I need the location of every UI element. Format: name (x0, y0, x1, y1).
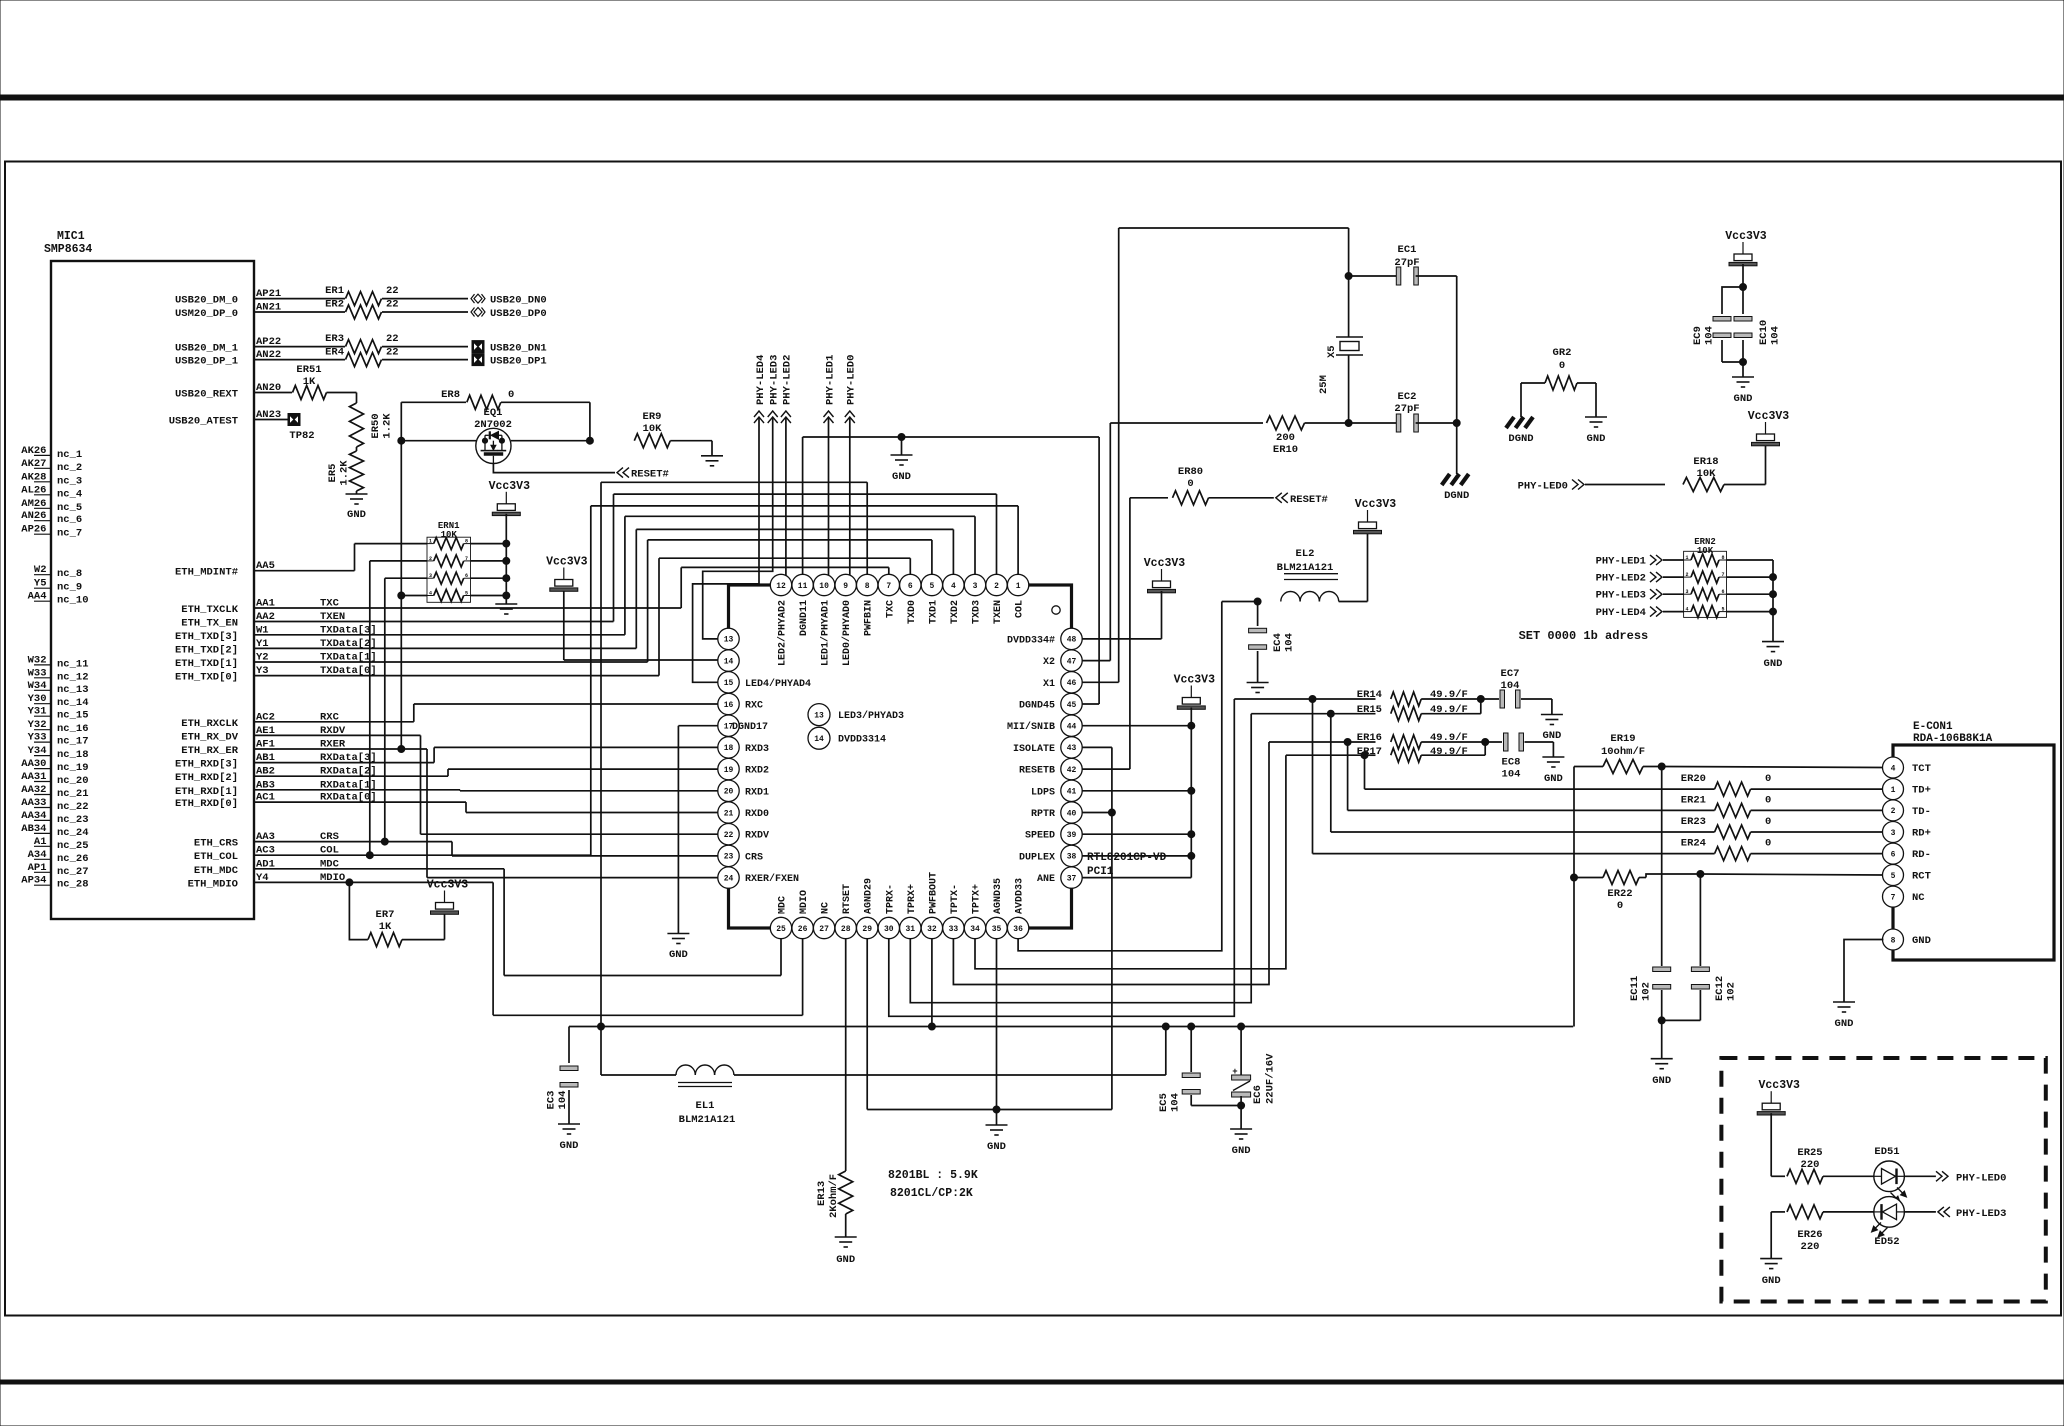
svg-text:ETH_MDINT#: ETH_MDINT# (175, 567, 238, 579)
svg-text:LED3/PHYAD3: LED3/PHYAD3 (838, 710, 904, 722)
svg-text:ED52: ED52 (1874, 1236, 1899, 1248)
svg-text:LED4/PHYAD4: LED4/PHYAD4 (745, 678, 811, 690)
svg-text:38: 38 (1067, 853, 1077, 862)
svg-text:44: 44 (1067, 723, 1077, 732)
svg-text:RXD0: RXD0 (745, 809, 769, 820)
svg-text:1K: 1K (379, 921, 392, 933)
svg-text:EL1: EL1 (696, 1100, 715, 1112)
svg-text:AGND35: AGND35 (993, 878, 1004, 914)
svg-text:ETH_COL: ETH_COL (194, 851, 238, 863)
svg-text:EC9: EC9 (1692, 326, 1704, 345)
svg-text:22: 22 (386, 347, 399, 359)
svg-text:GND: GND (1912, 935, 1931, 947)
svg-text:Y32: Y32 (28, 719, 47, 731)
svg-text:TP82: TP82 (289, 430, 314, 442)
svg-text:SPEED: SPEED (1025, 831, 1055, 842)
svg-text:Vcc3V3: Vcc3V3 (489, 480, 531, 493)
svg-text:ETH_TXD[1]: ETH_TXD[1] (175, 658, 238, 670)
svg-text:22: 22 (724, 831, 734, 840)
svg-text:ER13: ER13 (816, 1181, 828, 1206)
svg-text:ER24: ER24 (1681, 838, 1706, 850)
svg-text:GND: GND (987, 1141, 1006, 1153)
svg-text:41: 41 (1067, 788, 1077, 797)
svg-text:TXC: TXC (885, 600, 896, 618)
svg-text:ER7: ER7 (376, 909, 395, 921)
svg-text:2: 2 (429, 556, 432, 562)
svg-text:EC11: EC11 (1629, 976, 1641, 1001)
svg-text:104: 104 (557, 1091, 569, 1110)
svg-text:TPTX+: TPTX+ (972, 884, 983, 914)
svg-text:nc_12: nc_12 (57, 671, 89, 683)
svg-text:14: 14 (814, 735, 824, 744)
svg-text:LED0/PHYAD0: LED0/PHYAD0 (841, 600, 853, 666)
svg-text:1K: 1K (303, 376, 316, 388)
svg-text:W34: W34 (28, 680, 47, 692)
svg-text:nc_4: nc_4 (57, 488, 82, 500)
svg-text:PWFBIN: PWFBIN (864, 600, 875, 636)
svg-text:1: 1 (1016, 582, 1021, 591)
svg-text:0: 0 (1559, 360, 1565, 372)
svg-text:Vcc3V3: Vcc3V3 (1144, 557, 1186, 570)
svg-text:19: 19 (724, 766, 734, 775)
svg-text:GND: GND (347, 509, 366, 521)
svg-text:ETH_RXD[2]: ETH_RXD[2] (175, 772, 238, 784)
svg-text:USB20_REXT: USB20_REXT (175, 389, 238, 401)
svg-text:PHY-LED4: PHY-LED4 (755, 355, 767, 405)
svg-text:nc_6: nc_6 (57, 514, 82, 526)
svg-text:nc_15: nc_15 (57, 710, 89, 722)
svg-text:RESET#: RESET# (1290, 494, 1328, 506)
svg-text:TXEN: TXEN (993, 600, 1004, 624)
svg-text:nc_11: nc_11 (57, 658, 89, 670)
svg-text:PHY-LED4: PHY-LED4 (1596, 607, 1646, 619)
svg-text:28: 28 (841, 925, 851, 934)
svg-text:A34: A34 (28, 849, 47, 861)
svg-text:USB20_DP_1: USB20_DP_1 (175, 356, 238, 368)
svg-text:DUPLEX: DUPLEX (1019, 852, 1055, 863)
svg-text:10: 10 (819, 582, 829, 591)
svg-text:EC3: EC3 (546, 1091, 558, 1110)
svg-text:8201BL : 5.9K: 8201BL : 5.9K (888, 1169, 978, 1182)
svg-text:AP1: AP1 (28, 862, 47, 874)
svg-text:ER10: ER10 (1273, 444, 1298, 456)
svg-text:RCT: RCT (1912, 871, 1931, 883)
svg-text:TXD2: TXD2 (950, 600, 961, 624)
svg-text:RDA-106B8K1A: RDA-106B8K1A (1913, 733, 1993, 745)
svg-text:EC4: EC4 (1272, 633, 1284, 652)
svg-text:GR2: GR2 (1553, 347, 1572, 359)
svg-text:RTSET: RTSET (842, 884, 853, 914)
svg-text:4: 4 (1891, 764, 1896, 773)
svg-text:Vcc3V3: Vcc3V3 (1748, 410, 1790, 423)
svg-text:RD-: RD- (1912, 849, 1931, 861)
svg-text:PWFBOUT: PWFBOUT (928, 872, 939, 914)
svg-text:48: 48 (1067, 636, 1077, 645)
svg-text:MIC1: MIC1 (57, 230, 85, 243)
svg-text:ETH_RXD[3]: ETH_RXD[3] (175, 759, 238, 771)
svg-text:USB20_DN0: USB20_DN0 (490, 295, 547, 307)
svg-text:PHY-LED0: PHY-LED0 (1518, 481, 1568, 493)
svg-text:nc_17: nc_17 (57, 736, 89, 748)
svg-text:1: 1 (1686, 555, 1689, 561)
svg-text:CRS: CRS (745, 852, 763, 863)
svg-text:nc_24: nc_24 (57, 827, 89, 839)
svg-text:PHY-LED2: PHY-LED2 (1596, 573, 1646, 585)
svg-text:ANE: ANE (1037, 874, 1055, 885)
svg-text:ER18: ER18 (1693, 456, 1718, 468)
svg-text:DGND11: DGND11 (799, 600, 810, 636)
svg-text:1.2K: 1.2K (382, 413, 394, 439)
svg-text:35: 35 (992, 925, 1002, 934)
svg-text:DVDD334#: DVDD334# (1007, 635, 1055, 646)
svg-text:22: 22 (386, 285, 399, 297)
svg-text:PHY-LED1: PHY-LED1 (824, 355, 836, 405)
svg-text:PHY-LED3: PHY-LED3 (1596, 590, 1646, 602)
svg-text:39: 39 (1067, 831, 1077, 840)
svg-text:EC8: EC8 (1502, 757, 1521, 769)
svg-text:nc_7: nc_7 (57, 528, 82, 540)
svg-text:AA32: AA32 (21, 784, 46, 796)
svg-text:GND: GND (1734, 393, 1753, 405)
svg-text:104: 104 (1502, 769, 1521, 781)
svg-text:PHY-LED0: PHY-LED0 (1956, 1172, 2006, 1184)
svg-text:34: 34 (970, 925, 980, 934)
svg-text:25M: 25M (1318, 375, 1330, 394)
svg-text:nc_22: nc_22 (57, 801, 89, 813)
svg-text:ETH_RXD[1]: ETH_RXD[1] (175, 786, 238, 798)
svg-text:nc_27: nc_27 (57, 866, 89, 878)
svg-text:ETH_TXCLK: ETH_TXCLK (181, 604, 238, 616)
svg-text:10ohm/F: 10ohm/F (1601, 746, 1645, 758)
svg-text:15: 15 (724, 679, 734, 688)
svg-text:5: 5 (1721, 607, 1724, 613)
svg-text:TCT: TCT (1912, 763, 1931, 775)
svg-text:23: 23 (724, 853, 734, 862)
svg-text:4: 4 (429, 591, 432, 597)
svg-text:AA30: AA30 (21, 758, 46, 770)
svg-text:ER4: ER4 (325, 347, 344, 359)
svg-text:USB20_ATEST: USB20_ATEST (169, 416, 238, 428)
svg-text:7: 7 (1891, 893, 1896, 902)
svg-text:RXD2: RXD2 (745, 766, 769, 777)
svg-text:Y5: Y5 (34, 578, 47, 590)
svg-text:0: 0 (1765, 838, 1771, 850)
svg-text:X2: X2 (1043, 657, 1055, 668)
svg-text:RPTR: RPTR (1031, 809, 1055, 820)
svg-text:6: 6 (908, 582, 913, 591)
svg-text:Vcc3V3: Vcc3V3 (546, 556, 588, 569)
svg-text:33: 33 (949, 925, 959, 934)
svg-text:BLM21A121: BLM21A121 (1277, 562, 1334, 574)
svg-text:A1: A1 (34, 836, 47, 848)
svg-text:RD+: RD+ (1912, 828, 1931, 840)
svg-text:2: 2 (1686, 572, 1689, 578)
svg-text:PCI1: PCI1 (1087, 866, 1114, 878)
svg-text:COL: COL (1015, 600, 1026, 618)
svg-text:DGND17: DGND17 (732, 722, 768, 733)
svg-text:40: 40 (1067, 809, 1077, 818)
svg-text:LED1/PHYAD1: LED1/PHYAD1 (820, 600, 832, 666)
svg-text:ER9: ER9 (643, 411, 662, 423)
svg-text:nc_3: nc_3 (57, 475, 82, 487)
svg-text:AA31: AA31 (21, 771, 46, 783)
svg-text:DVDD3314: DVDD3314 (838, 735, 886, 746)
svg-text:USB20_DM_1: USB20_DM_1 (175, 343, 238, 355)
svg-text:W33: W33 (28, 667, 47, 679)
svg-text:ER19: ER19 (1610, 733, 1635, 745)
svg-text:PHY-LED0: PHY-LED0 (846, 355, 858, 405)
svg-text:27pF: 27pF (1394, 403, 1419, 415)
svg-text:AK27: AK27 (21, 458, 46, 470)
svg-text:LED2/PHYAD2: LED2/PHYAD2 (777, 600, 789, 666)
svg-text:Vcc3V3: Vcc3V3 (1355, 498, 1397, 511)
svg-text:Vcc3V3: Vcc3V3 (1758, 1079, 1800, 1092)
svg-text:22UF/16V: 22UF/16V (1265, 1053, 1277, 1104)
svg-text:nc_13: nc_13 (57, 684, 89, 696)
svg-text:11: 11 (798, 582, 808, 591)
svg-text:MDIO: MDIO (799, 890, 810, 914)
svg-text:20: 20 (724, 788, 734, 797)
svg-text:8: 8 (465, 539, 468, 545)
svg-text:Y30: Y30 (28, 693, 47, 705)
svg-text:nc_21: nc_21 (57, 788, 89, 800)
svg-text:DGND45: DGND45 (1019, 701, 1055, 712)
svg-text:31: 31 (905, 925, 915, 934)
svg-text:24: 24 (724, 874, 734, 883)
svg-text:PHY-LED3: PHY-LED3 (769, 355, 781, 405)
svg-text:TD-: TD- (1912, 806, 1931, 818)
svg-text:4: 4 (1686, 607, 1689, 613)
svg-text:14: 14 (724, 657, 734, 666)
svg-text:AM26: AM26 (21, 498, 46, 510)
svg-text:EC12: EC12 (1714, 976, 1726, 1001)
svg-text:RXD3: RXD3 (745, 744, 769, 755)
svg-text:Y33: Y33 (28, 732, 47, 744)
svg-text:104: 104 (1704, 326, 1716, 345)
svg-text:RTL8201CP-VD: RTL8201CP-VD (1087, 852, 1167, 864)
svg-text:GND: GND (1542, 730, 1561, 742)
svg-text:9: 9 (843, 582, 848, 591)
svg-text:ER14: ER14 (1357, 689, 1382, 701)
svg-text:RESET#: RESET# (631, 469, 669, 481)
svg-text:29: 29 (862, 925, 872, 934)
svg-text:26: 26 (798, 925, 808, 934)
svg-text:GND: GND (1587, 433, 1606, 445)
svg-text:nc_19: nc_19 (57, 762, 89, 774)
svg-text:nc_9: nc_9 (57, 582, 82, 594)
svg-text:2: 2 (1891, 807, 1896, 816)
svg-text:nc_20: nc_20 (57, 775, 89, 787)
svg-text:AK28: AK28 (21, 471, 46, 483)
svg-text:7: 7 (886, 582, 891, 591)
svg-text:102: 102 (1641, 982, 1653, 1001)
svg-text:Vcc3V3: Vcc3V3 (1725, 230, 1767, 243)
svg-text:NC: NC (1912, 892, 1925, 904)
svg-text:10K: 10K (643, 423, 663, 435)
svg-text:ER16: ER16 (1357, 732, 1382, 744)
svg-text:220: 220 (1801, 1159, 1820, 1171)
svg-text:ETH_RX_DV: ETH_RX_DV (181, 731, 238, 743)
svg-text:ER21: ER21 (1681, 794, 1706, 806)
svg-text:nc_28: nc_28 (57, 879, 89, 891)
svg-text:43: 43 (1067, 744, 1077, 753)
svg-text:RXER/FXEN: RXER/FXEN (745, 873, 799, 885)
svg-text:AB34: AB34 (21, 823, 46, 835)
svg-text:EC5: EC5 (1158, 1093, 1170, 1112)
svg-text:8: 8 (865, 582, 870, 591)
svg-text:DGND: DGND (1444, 490, 1469, 502)
svg-text:3: 3 (1686, 589, 1689, 595)
svg-text:nc_18: nc_18 (57, 749, 89, 761)
svg-text:104: 104 (1501, 680, 1520, 692)
svg-text:X1: X1 (1043, 679, 1055, 690)
svg-text:8: 8 (1891, 936, 1896, 945)
svg-text:GND: GND (1835, 1018, 1854, 1030)
svg-text:1: 1 (1891, 786, 1896, 795)
svg-text:6: 6 (1891, 850, 1896, 859)
svg-text:TXD0: TXD0 (907, 600, 918, 624)
svg-text:EC2: EC2 (1398, 391, 1417, 403)
svg-text:0: 0 (1617, 900, 1623, 912)
svg-text:TPTX-: TPTX- (950, 884, 961, 914)
svg-text:ER2: ER2 (325, 299, 344, 311)
svg-text:200: 200 (1276, 432, 1295, 444)
svg-text:RXC: RXC (745, 701, 763, 712)
svg-text:8201CL/CP:2K: 8201CL/CP:2K (890, 1187, 973, 1200)
svg-text:6: 6 (1721, 589, 1724, 595)
svg-text:27pF: 27pF (1394, 257, 1419, 269)
svg-text:7: 7 (1721, 572, 1724, 578)
svg-text:TPRX+: TPRX+ (907, 884, 918, 914)
svg-text:49.9/F: 49.9/F (1430, 746, 1468, 758)
svg-text:GND: GND (1232, 1145, 1251, 1157)
svg-text:ER8: ER8 (441, 389, 460, 401)
svg-text:nc_8: nc_8 (57, 568, 82, 580)
svg-text:Vcc3V3: Vcc3V3 (427, 879, 469, 892)
svg-text:DGND: DGND (1508, 433, 1533, 445)
svg-text:5: 5 (465, 591, 468, 597)
svg-text:USB20_DP1: USB20_DP1 (490, 356, 547, 368)
svg-text:0: 0 (508, 389, 514, 401)
svg-text:ETH_TXD[2]: ETH_TXD[2] (175, 644, 238, 656)
svg-text:ER51: ER51 (296, 364, 321, 376)
svg-text:21: 21 (724, 809, 734, 818)
svg-text:30: 30 (884, 925, 894, 934)
svg-text:49.9/F: 49.9/F (1430, 704, 1468, 716)
svg-text:EC1: EC1 (1398, 244, 1417, 256)
svg-text:PHY-LED2: PHY-LED2 (782, 355, 794, 405)
svg-text:3: 3 (1891, 829, 1896, 838)
svg-text:nc_1: nc_1 (57, 449, 82, 461)
svg-text:nc_25: nc_25 (57, 840, 89, 852)
svg-text:PHY-LED3: PHY-LED3 (1956, 1208, 2006, 1220)
svg-text:RXDV: RXDV (745, 831, 769, 842)
svg-text:TXD1: TXD1 (928, 600, 939, 624)
svg-text:32: 32 (927, 925, 937, 934)
svg-text:10K: 10K (441, 530, 458, 540)
svg-text:LDPS: LDPS (1031, 787, 1055, 798)
svg-text:18: 18 (724, 744, 734, 753)
svg-text:ER1: ER1 (325, 285, 344, 297)
svg-text:27: 27 (819, 925, 829, 934)
svg-text:AA33: AA33 (21, 797, 46, 809)
svg-text:MDC: MDC (778, 896, 789, 914)
svg-text:PHY-LED1: PHY-LED1 (1596, 556, 1646, 568)
svg-text:nc_14: nc_14 (57, 697, 89, 709)
svg-text:1.2K: 1.2K (339, 460, 351, 486)
svg-text:ER15: ER15 (1357, 704, 1382, 716)
svg-text:AVDD33: AVDD33 (1015, 878, 1026, 914)
svg-text:Vcc3V3: Vcc3V3 (1174, 674, 1216, 687)
svg-text:ER25: ER25 (1797, 1147, 1822, 1159)
svg-text:RXD1: RXD1 (745, 787, 769, 798)
svg-text:46: 46 (1067, 679, 1077, 688)
svg-text:ETH_MDIO: ETH_MDIO (188, 878, 238, 890)
svg-text:47: 47 (1067, 657, 1077, 666)
svg-text:ETH_RX_ER: ETH_RX_ER (181, 745, 238, 757)
svg-text:ER50: ER50 (370, 413, 382, 438)
svg-text:0: 0 (1187, 478, 1193, 490)
svg-text:16: 16 (724, 701, 734, 710)
svg-text:36: 36 (1013, 925, 1023, 934)
svg-text:ETH_MDC: ETH_MDC (194, 865, 239, 877)
svg-text:+: + (1232, 1067, 1237, 1077)
svg-text:nc_26: nc_26 (57, 853, 89, 865)
svg-text:22: 22 (386, 299, 399, 311)
svg-text:102: 102 (1726, 982, 1738, 1001)
svg-text:EC6: EC6 (1252, 1085, 1264, 1104)
svg-text:USB20_DN1: USB20_DN1 (490, 343, 547, 355)
svg-text:ER5: ER5 (327, 464, 339, 483)
svg-text:4: 4 (951, 582, 956, 591)
svg-text:TPRX-: TPRX- (885, 884, 896, 914)
svg-text:GND: GND (669, 949, 688, 961)
svg-text:AA4: AA4 (28, 591, 47, 603)
svg-text:2Kohm/F: 2Kohm/F (828, 1174, 840, 1218)
svg-text:ER20: ER20 (1681, 773, 1706, 785)
svg-text:SMP8634: SMP8634 (44, 243, 92, 256)
svg-text:ER22: ER22 (1607, 888, 1632, 900)
svg-text:ER80: ER80 (1178, 466, 1203, 478)
svg-text:0: 0 (1765, 816, 1771, 828)
svg-text:7: 7 (465, 556, 468, 562)
svg-text:Y34: Y34 (28, 745, 47, 757)
svg-text:3: 3 (973, 582, 978, 591)
svg-text:104: 104 (1770, 326, 1782, 345)
svg-text:ER17: ER17 (1357, 746, 1382, 758)
svg-text:6: 6 (465, 573, 468, 579)
svg-text:Y31: Y31 (28, 706, 47, 718)
svg-text:104: 104 (1170, 1093, 1182, 1112)
svg-text:AL26: AL26 (21, 484, 46, 496)
svg-text:2N7002: 2N7002 (474, 419, 512, 431)
svg-text:12: 12 (776, 582, 786, 591)
svg-text:GND: GND (1764, 658, 1783, 670)
svg-text:nc_5: nc_5 (57, 502, 82, 514)
svg-text:ETH_TXD[0]: ETH_TXD[0] (175, 672, 238, 684)
svg-text:AGND29: AGND29 (864, 878, 875, 914)
svg-text:MII/SNIB: MII/SNIB (1007, 721, 1055, 733)
svg-text:W2: W2 (34, 564, 47, 576)
svg-text:TXD3: TXD3 (972, 600, 983, 624)
svg-text:EQ1: EQ1 (484, 407, 503, 419)
svg-text:10K: 10K (1697, 468, 1717, 480)
svg-text:EC10: EC10 (1758, 320, 1770, 345)
svg-text:1: 1 (429, 539, 432, 545)
svg-text:GND: GND (1544, 773, 1563, 785)
svg-text:ER23: ER23 (1681, 816, 1706, 828)
svg-text:E-CON1: E-CON1 (1913, 721, 1953, 733)
